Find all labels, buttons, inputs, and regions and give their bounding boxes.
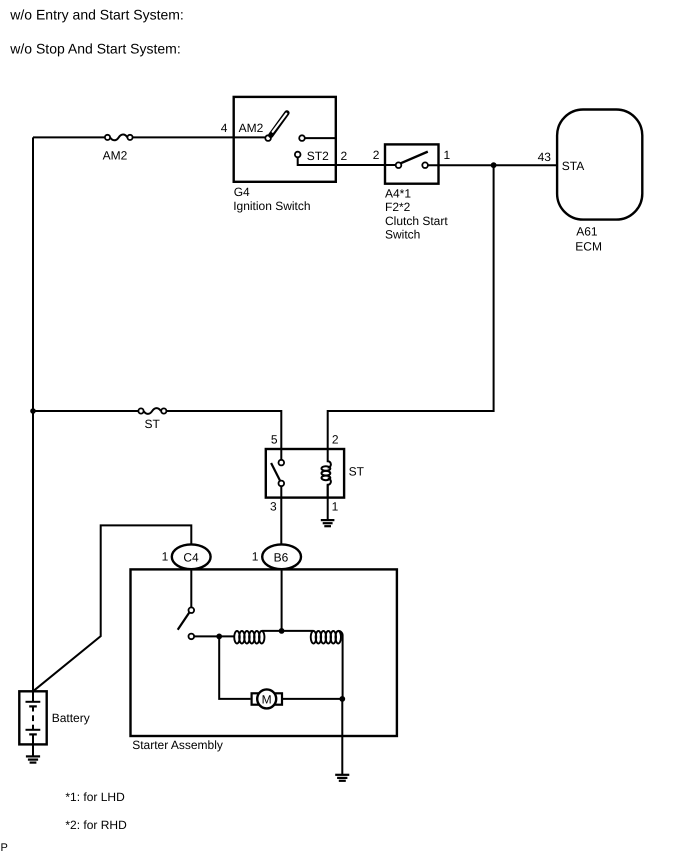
ECM box A61: [557, 110, 642, 220]
svg-text:STA: STA: [562, 159, 584, 173]
wire right contact to box edge: [305, 137, 336, 139]
svg-text:F2*2: F2*2: [385, 200, 411, 214]
wire AM2 feed left segment: [33, 136, 105, 138]
node junction left bus / ST row: [30, 408, 36, 414]
svg-text:Clutch Start: Clutch Start: [385, 214, 448, 228]
svg-text:A4*1: A4*1: [385, 186, 411, 200]
wire C4 to starter switch: [190, 569, 192, 607]
svg-text:w/o Entry and Start System:: w/o Entry and Start System:: [9, 6, 184, 22]
svg-text:*2: for RHD: *2: for RHD: [65, 818, 127, 832]
svg-text:1: 1: [252, 550, 259, 564]
coil 2 hold-in: [311, 631, 341, 644]
wire AM2 feed right segment to ignition switch: [133, 136, 266, 138]
fuse AM2: [105, 135, 133, 141]
clutch switch right contact: [422, 162, 428, 168]
ignition switch ST2 contact: [295, 152, 301, 158]
ground relay pin 1: [321, 520, 335, 526]
svg-text:G4: G4: [234, 185, 250, 199]
svg-text:M: M: [262, 692, 272, 706]
ignition switch right contact: [299, 135, 305, 141]
svg-text:1: 1: [444, 148, 451, 162]
clutch start switch box: [385, 144, 439, 183]
svg-text:w/o Stop And Start System:: w/o Stop And Start System:: [9, 40, 180, 56]
svg-text:B6: B6: [274, 550, 289, 564]
wire switch to coil junction: [194, 635, 233, 637]
starter switch lever: [178, 612, 190, 630]
node junction STA branch: [491, 162, 497, 168]
svg-text:Switch: Switch: [385, 228, 420, 242]
node junction motor / ground: [339, 696, 345, 702]
relay top contact: [279, 460, 285, 466]
clutch switch name labels: [385, 186, 448, 241]
svg-text:AM2: AM2: [103, 149, 128, 163]
clutch switch left contact: [396, 162, 402, 168]
starter switch bottom contact: [189, 634, 195, 640]
svg-text:1: 1: [162, 550, 169, 564]
relay coil: [322, 449, 331, 498]
wire relay pin 3 to B6: [280, 486, 282, 544]
svg-text:5: 5: [271, 432, 278, 446]
svg-text:4: 4: [221, 121, 228, 135]
svg-text:2: 2: [341, 149, 348, 163]
svg-text:Ignition Switch: Ignition Switch: [233, 199, 310, 213]
svg-text:3: 3: [270, 500, 277, 514]
svg-text:1: 1: [332, 499, 339, 513]
ignition switch box G4: [234, 97, 336, 182]
svg-text:A61: A61: [576, 224, 598, 238]
clutch switch lever: [401, 152, 428, 164]
wire pull-in junction down to motor: [219, 636, 250, 699]
battery cells: [26, 691, 41, 744]
ignition switch AM2 contact: [265, 135, 271, 141]
svg-text:ST: ST: [349, 465, 365, 479]
battery box: [19, 691, 46, 744]
wire between coils: [262, 630, 314, 632]
wire ST row left: [33, 410, 138, 412]
ground battery: [26, 756, 40, 762]
svg-text:ECM: ECM: [575, 240, 602, 254]
wire coil 2 down to motor junction: [338, 631, 342, 699]
wire C4 feed polyline to battery: [33, 525, 191, 691]
wire left bus vertical: [32, 137, 34, 691]
svg-text:AM2: AM2: [239, 121, 264, 135]
svg-text:2: 2: [373, 148, 380, 162]
svg-text:2: 2: [332, 433, 339, 447]
svg-text:43: 43: [538, 150, 552, 164]
svg-text:Starter Assembly: Starter Assembly: [132, 738, 223, 752]
connector B6: [262, 544, 301, 569]
starter assembly box: [131, 569, 397, 736]
fuse ST: [138, 408, 166, 414]
svg-text:*1: for LHD: *1: for LHD: [65, 790, 125, 804]
svg-text:ST: ST: [145, 417, 161, 431]
starter switch top contact: [189, 607, 195, 613]
ignition switch lever: [271, 113, 287, 135]
wire motor to right junction: [282, 698, 342, 700]
coil 1 pull-in: [234, 631, 264, 644]
wire starter ground: [341, 699, 343, 775]
wire ST2 to clutch start switch: [298, 157, 396, 165]
node junction pull-in branch: [216, 634, 222, 640]
relay bottom contact: [279, 481, 285, 487]
wire relay coil to ground: [327, 485, 329, 520]
wire B6 to coil junction: [281, 569, 283, 631]
wire STA branch vertical: [328, 165, 494, 449]
ground starter: [335, 775, 349, 781]
node junction B6 / coils: [279, 628, 285, 634]
wire battery to ground: [32, 744, 34, 756]
relay box ST: [266, 449, 344, 498]
svg-text:ST2: ST2: [307, 149, 329, 163]
svg-text:C4: C4: [183, 550, 199, 564]
wire ST row right to relay pin 5: [166, 411, 281, 460]
connector C4: [172, 544, 211, 569]
svg-text:Battery: Battery: [52, 711, 90, 725]
svg-text:P: P: [1, 842, 8, 852]
relay lever: [271, 463, 281, 482]
wire clutch switch to ECM: [428, 164, 557, 166]
motor M: [252, 689, 282, 708]
